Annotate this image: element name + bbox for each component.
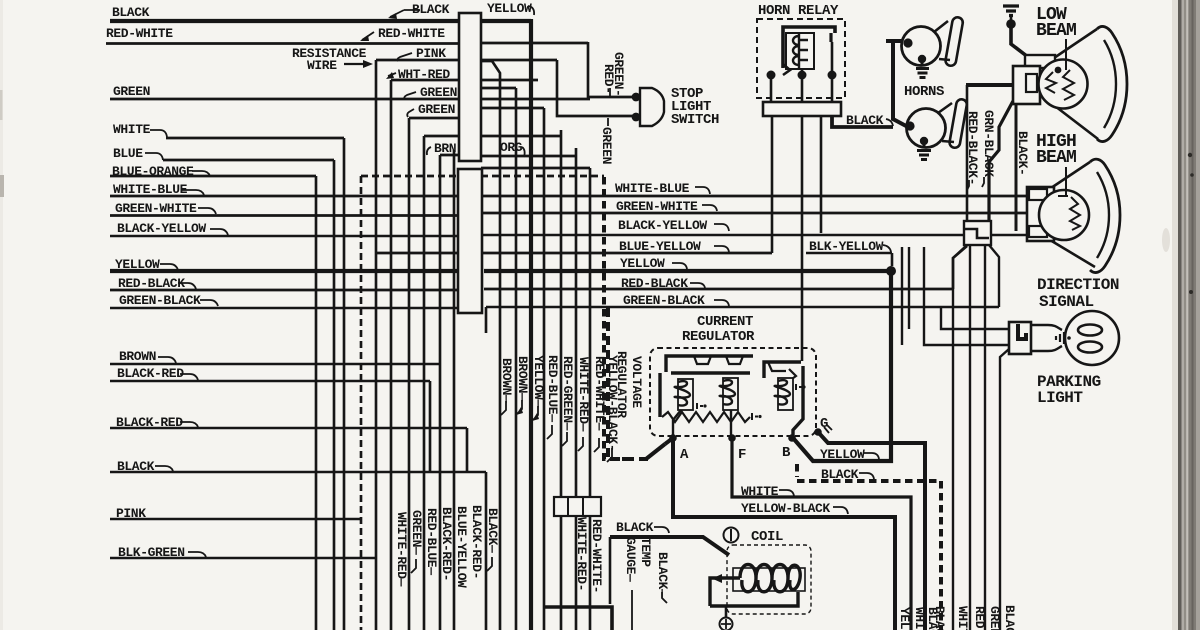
wire mid leg 2 [984,245,986,630]
wire WHITE (left) [166,137,344,140]
terminal dot G [814,428,822,436]
stop light switch terminal dots [632,93,641,102]
terminal dot F [728,434,736,442]
svg-text:A: A [680,447,689,463]
coil bottom lead [710,592,798,606]
hook BLACK-RED [180,374,198,380]
svg-text:SWITCH: SWITCH [671,112,719,128]
svg-text:PINK: PINK [416,46,446,61]
svg-text:RED-BLACK: RED-BLACK [118,276,185,291]
coil symbol circle [724,528,739,543]
hook WHITE-BLUE [182,190,204,195]
wire GREEN-WHITE long [110,213,1028,216]
svg-text:BROWN—: BROWN— [499,358,514,403]
wire vertical at 590 top [589,168,592,630]
wire vertical at 454 [453,150,456,630]
wire BLACK-RED vertical [429,381,432,472]
direction signal connector box [964,221,991,245]
svg-text:B: B [782,445,791,461]
high beam terminal 2 [1029,226,1047,237]
resistor tick dot [758,415,761,418]
hook BLACK-YELLOW [210,229,228,235]
wire BLUE-ORANGE [110,175,316,178]
svg-text:BLACK: BLACK [117,459,155,474]
leader RED-WHITE 2 [362,32,374,40]
wire stub bar to RED-BLUE [481,107,544,110]
wire GREEN 2 vertical [408,118,411,630]
temp gauge leader [631,590,633,630]
parking spark marks [1056,332,1064,344]
hook BLUE-YELLOW mid [714,246,729,252]
horn relay coil box [786,33,814,69]
parking spark dot [1067,336,1071,340]
svg-text:GREEN-BLACK: GREEN-BLACK [119,293,201,308]
wire diag dashed-end to A [646,444,665,459]
leader WHT-RED [388,73,396,76]
wire A leg [665,438,673,444]
horn 2 body [907,109,946,148]
horn relay contact stem [829,33,832,42]
svg-text:SIGNAL: SIGNAL [1039,293,1094,311]
coil dashed box [727,545,811,614]
svg-text:WHT-RED: WHT-RED [398,67,450,82]
wire RED-WHITE [106,42,588,45]
svg-text:WHITE-RED—: WHITE-RED— [394,512,409,587]
high beam reflector cone [1048,162,1095,267]
wire BROWN 2 vertical [515,88,518,630]
wire GREEN to switch lower terminal [557,60,634,116]
wire BLACK vertical to bottom [485,472,488,630]
low beam filament zigzag 1 [1046,72,1056,93]
junction dot yellow [886,266,896,276]
wire B yellow already drawn; wire G black thick [818,432,925,630]
wire PINK [376,59,557,62]
svg-text:BEAM: BEAM [1036,148,1076,168]
wire BLACK-RED 2 vertical [466,428,469,472]
svg-text:BROWN—: BROWN— [515,356,530,401]
coil core rect [733,568,805,591]
hook BLACK horns [886,119,893,126]
hook RED-WHITE v [594,438,599,452]
svg-text:GREEN: GREEN [418,102,455,117]
hook ORG [522,147,525,157]
hook BLUE [145,153,163,160]
connector step mark [965,229,989,238]
high beam lens inner arc [1097,172,1109,258]
hook GREEN-WHITE mid [702,205,717,211]
hook RED-BLACK mid [690,283,705,288]
horn 1 bell pill [945,16,964,66]
current regulator coil 2 box [723,378,738,410]
arrowhead BROWN2 v [516,407,523,415]
hook YELLOW mid [672,263,687,269]
svg-text:WHITE-BLUE: WHITE-BLUE [615,181,690,196]
hook BROWN 1 v [501,401,506,415]
low beam lens inner arc [1104,40,1116,128]
wire GREEN-BLACK [110,307,999,308]
wire A down yellow-black [673,438,895,630]
wire BROWN (left) [110,363,441,365]
wire F down white [732,438,911,630]
wire coil1 to A [673,410,681,437]
svg-text:YELLOW-BLACK: YELLOW-BLACK [741,501,830,516]
wire dashed vertical at 604 (YELLOW-BLACK) [604,177,632,459]
wire BLUE (left) [163,159,334,162]
wire lamp drop b [908,247,910,329]
svg-text:HORNS: HORNS [904,84,944,100]
voltage regulator armature bar [671,371,750,375]
low beam bulb [1039,60,1088,109]
wire stub bar to RED-WHITE lower [481,167,590,170]
wire WHITE-BLUE long [110,195,1032,198]
current regulator coil 2 winding [720,380,735,405]
cutout contact tick [796,384,802,390]
arrowhead BLACK top [388,13,397,19]
coil left lead [710,578,740,606]
hook GREEN-WHITE [198,208,216,214]
horn 1 bell neck [934,21,950,60]
svg-text:WHITE-RED—: WHITE-RED— [576,357,591,432]
svg-text:GRN-BLACK-: GRN-BLACK- [981,110,996,184]
horn 2 bell neck [938,103,954,142]
hook WHITE-BLUE mid [695,187,710,194]
wire dashed horizontal from blue-orange [361,175,604,178]
svg-text:BLUE-ORANGE: BLUE-ORANGE [112,164,194,179]
hook RED-BLUE v [547,425,552,439]
hook BLK-GREEN [188,552,206,557]
wire dashed BLACK to A [608,308,648,459]
wire RED-BLUE vertical [543,108,546,630]
svg-text:BLUE-YELLOW: BLUE-YELLOW [454,506,469,588]
voltage regulator contact foot 2 [726,356,743,364]
arrowhead WHT-RED [386,72,394,79]
svg-text:YELLOW: YELLOW [487,1,532,16]
coil 1 tick dot [703,404,706,407]
hook YELLOW top [528,6,534,15]
terminal dot B [788,434,796,442]
regulator dashed box [650,348,816,436]
low beam reflector cone [1051,29,1098,139]
svg-text:TEMP: TEMP [638,537,653,567]
wire bus to black-yellow junction [820,116,823,233]
junction dot right [828,71,837,80]
svg-text:GREEN: GREEN [599,127,614,164]
horn 1 body [902,27,941,66]
connector strip divider 2 [582,497,584,516]
svg-text:RED-WHITE: RED-WHITE [378,26,445,41]
svg-text:RED-WHITE-: RED-WHITE- [589,519,604,593]
coil lead arrow [712,574,722,583]
cutout tick dot [802,385,805,388]
hook GRN-BLACK headlight v [982,177,984,187]
svg-text:LIGHT: LIGHT [1037,389,1083,407]
wire mid leg 1 [969,245,971,630]
wire YELLOW thick vertical from BLACK corner [529,19,533,630]
parking light bulb [1065,311,1119,365]
svg-text:RED-BLACK: RED-BLACK [621,276,688,291]
regulator resistor zigzag [662,412,750,422]
svg-text:HORN RELAY: HORN RELAY [758,3,839,19]
wire WHT-RED vertical [390,80,393,630]
ground top right [1003,6,1019,16]
svg-text:WHITE: WHITE [113,122,151,137]
wire GREEN 2 [409,117,459,120]
wire horn feed vertical [886,41,908,127]
low beam reflector arc [1097,26,1127,141]
wire BLUE vertical [333,160,336,630]
cutout relay armature [768,362,796,381]
wire BLACK vertical low-high [1015,104,1018,231]
coil bottom drop [725,606,728,618]
voltage regulator frame [666,356,753,372]
svg-text:RED-BLACK-: RED-BLACK- [965,111,980,185]
wire lamp drop c [924,247,1009,345]
arrowhead RED-WHITE 2 [360,35,369,41]
wire BLACK (top, thick) [110,19,531,23]
G tick marks [824,425,832,433]
svg-text:G: G [820,416,828,432]
svg-text:RED-BLUE—: RED-BLUE— [424,508,439,575]
wire YELLOW thick vertical right [793,271,891,461]
wire BLACK-RED 2 [110,427,467,429]
LOW BEAM leader [1065,39,1067,70]
connector strip 3-cell [554,497,601,516]
svg-text:GREEN: GREEN [420,85,457,100]
svg-text:WHITE: WHITE [955,606,970,630]
wire BLACK (left lower) [110,471,486,473]
wire BLACK vertical left [609,537,612,604]
svg-text:BLACK-RED-: BLACK-RED- [469,505,484,579]
resistor contact tick [752,413,758,420]
hook GREEN-BLACK mid [714,300,729,306]
svg-text:PINK: PINK [116,506,146,521]
horn 1 ground [916,59,929,78]
svg-text:GREEN-WHITE: GREEN-WHITE [115,201,197,216]
wire BLACK to coil [610,537,729,555]
wire PINK (left lower) [110,518,361,520]
hook BLACK comb [487,557,492,571]
wire RED-GREEN vertical [560,130,563,630]
svg-text:BLACK-RED: BLACK-RED [117,366,184,381]
HIGH BEAM leader [1065,167,1067,195]
horn relay bus bar [763,102,841,116]
parking bulb filament 2 [1078,342,1102,353]
high beam housing [1027,187,1054,241]
hook BLACK gauge [662,592,667,603]
wire stub right of bar [481,87,516,90]
wire ground to low beam cap [1011,24,1028,57]
junction dot mid [798,71,807,80]
arrowhead YELLOW v [532,413,539,421]
wire RED-BLACK vertical [966,85,969,221]
svg-text:COIL: COIL [751,529,783,545]
svg-text:ORG: ORG [500,140,523,155]
wire WHT-RED [391,79,459,82]
svg-text:WHITE: WHITE [912,607,927,630]
svg-text:YELLOW: YELLOW [897,607,912,630]
svg-text:RED-GREEN—: RED-GREEN— [560,356,575,431]
svg-text:BEAM: BEAM [1036,21,1076,41]
hook BLACK-RED 2 [180,422,198,427]
wire GRN-BLACK diagonal [989,101,1013,221]
hook YELLOW v [533,406,538,420]
hook BLUE-ORANGE [192,171,210,176]
wire vertical at 441 [440,155,459,630]
svg-text:BLACK-YELLOW: BLACK-YELLOW [117,221,206,236]
parking light socket [1031,325,1062,351]
wire bus to cutout relay [801,116,804,361]
svg-text:RED-WHITE—: RED-WHITE— [592,356,607,431]
wire BLACK dashed from B [797,464,941,630]
svg-text:BLACK: BLACK [1002,605,1017,630]
hook BROWN [158,357,176,363]
horn relay dashed box [757,19,845,98]
low beam filament dot [1055,67,1062,74]
wire right of bar to BROWN vertical [481,79,538,82]
wire lamp drop a [901,247,903,345]
hook BLACK dashed [859,473,874,479]
svg-text:BLACK-RED-: BLACK-RED- [439,507,454,581]
wire WHITE vertical [343,138,346,630]
wire RED-WHITE down to stop light switch [588,42,634,97]
distributor symbol [720,618,733,630]
wire BLK-YELLOW drop [806,253,892,266]
coil symbol bar [730,529,732,541]
tick GREEN-RED switch [609,88,611,96]
svg-text:YELLOW: YELLOW [620,256,665,271]
svg-text:GREEN-BLACK: GREEN-BLACK [623,293,705,308]
terminal dot A [669,434,677,442]
high beam bulb [1039,190,1089,240]
wire GREEN [110,98,590,101]
coil winding loops [740,565,800,592]
svg-text:CURRENT: CURRENT [697,314,753,330]
svg-text:YELLOW—: YELLOW— [531,355,546,407]
svg-text:WHITE-RED-: WHITE-RED- [574,517,589,591]
svg-text:WHITE: WHITE [741,484,779,499]
wire coil2 to F [730,410,732,437]
svg-text:YELLOW: YELLOW [115,257,160,272]
hook RED-GREEN v [562,432,567,446]
distributor cross [721,619,731,629]
svg-text:DIRECTION: DIRECTION [1037,276,1119,294]
svg-text:F: F [738,447,746,463]
low beam housing [1013,66,1040,104]
low beam slot [1026,74,1037,92]
svg-text:BLACK: BLACK [112,5,150,20]
hook WHITE [779,490,794,496]
wire BLACK-RED (left) [110,380,430,382]
wire BROWN diag from bar [481,61,500,630]
horn relay coil winding [793,33,808,69]
wire dashed vertical at 361 [360,176,363,630]
parking bulb filament 1 [1078,325,1102,336]
hook GREEN mid1 [404,92,416,99]
wire to low beam t1 [966,83,1013,87]
wire stub below bar [485,307,488,333]
svg-text:BLACK-RED: BLACK-RED [116,415,183,430]
low beam filament zigzag 2 [1063,70,1074,100]
hook BLACK-YELLOW mid [714,224,729,231]
voltage regulator contact foot 1 [694,356,711,364]
wire BLUE-YELLOW [376,252,772,255]
hook PINK [397,53,412,61]
svg-text:REGULATOR: REGULATOR [614,351,629,418]
high beam filament zigzag [1070,197,1080,230]
wire stub bar to WHITE-RED [482,155,576,158]
voltage regulator coil 1 box [678,379,693,410]
svg-text:YELLOW: YELLOW [820,447,865,462]
horn 1 terminal dots [903,38,912,47]
svg-text:REGULATOR: REGULATOR [682,329,755,345]
svg-text:BLACK: BLACK [932,606,947,630]
hook WHITE-RED v [578,437,583,451]
wire lamp drop d [941,307,1009,329]
wire vertical at 424 [424,136,459,630]
svg-text:BROWN: BROWN [119,349,156,364]
hook GREEN comb [411,559,416,573]
wire BLUE-ORANGE vertical [315,176,318,630]
horn relay armature [783,64,790,75]
wire flare right leg [989,245,999,307]
horn 2 terminal dots [905,121,914,130]
hook YELLOW B [864,453,879,459]
svg-text:GREEN: GREEN [987,606,1002,630]
svg-text:BLACK-: BLACK- [1015,131,1030,175]
wire WHITE-RED vertical top [575,148,578,630]
svg-text:BLK-GREEN: BLK-GREEN [118,545,185,560]
wire flare left leg [953,245,967,630]
junction dot below ground [1006,19,1016,29]
svg-text:BLACK: BLACK [412,2,450,17]
svg-text:GREEN—: GREEN— [409,510,424,555]
arrow RESISTANCE WIRE [344,63,364,65]
hook BLACK coil [654,527,669,533]
connector bar lower [458,169,482,313]
hook GREEN mid2 [407,109,414,117]
wire stub bar to RED-GREEN [482,135,561,138]
hook BLK-YELLOW [883,245,891,252]
svg-text:BLACK-YELLOW: BLACK-YELLOW [618,218,707,233]
parking light connector [1009,322,1031,354]
svg-text:BRN: BRN [434,141,456,156]
svg-text:BLUE-YELLOW: BLUE-YELLOW [619,239,701,254]
hook BROWN 2 v [517,400,522,414]
temp gauge box corner [545,607,612,630]
svg-text:WHITE-BLUE: WHITE-BLUE [113,182,188,197]
tick GREEN below switch [607,118,609,126]
high beam terminal 1 [1029,189,1047,200]
connector strip divider 1 [567,497,569,516]
coil 1 contact tick [697,403,703,409]
ground stem [1010,16,1013,21]
cutout relay coil box [778,378,793,410]
leader BLACK top arrow [390,10,420,17]
svg-text:BLACK: BLACK [821,467,859,482]
stop light switch body [640,88,664,126]
hook GREEN-BLACK [200,300,218,306]
wire RED-BLACK rise to connector [953,246,967,289]
regulator left post [658,373,661,417]
low beam top cap [1025,55,1055,68]
svg-text:WIRE: WIRE [307,58,337,73]
hook YELLOW [160,264,178,270]
connector bar upper [459,13,481,161]
svg-text:GREEN: GREEN [113,84,150,99]
horn 2 ground [917,141,931,160]
high beam reflector arc [1090,159,1120,272]
high beam filament bar [1058,195,1068,197]
